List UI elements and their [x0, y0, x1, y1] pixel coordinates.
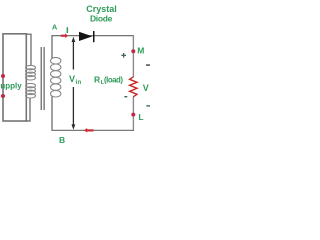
svg-text:Crystal: Crystal [86, 4, 117, 14]
svg-text:B: B [59, 135, 65, 145]
svg-text:M: M [137, 45, 144, 55]
svg-text:R: R [94, 74, 100, 84]
svg-text:V: V [69, 74, 75, 84]
svg-text:V: V [143, 83, 149, 93]
svg-text:A: A [52, 23, 58, 32]
svg-text:Diode: Diode [90, 13, 113, 23]
svg-text:(load): (load) [104, 75, 123, 84]
svg-text:in: in [76, 80, 82, 86]
svg-text:Supply: Supply [0, 81, 22, 90]
svg-text:L: L [138, 112, 143, 122]
